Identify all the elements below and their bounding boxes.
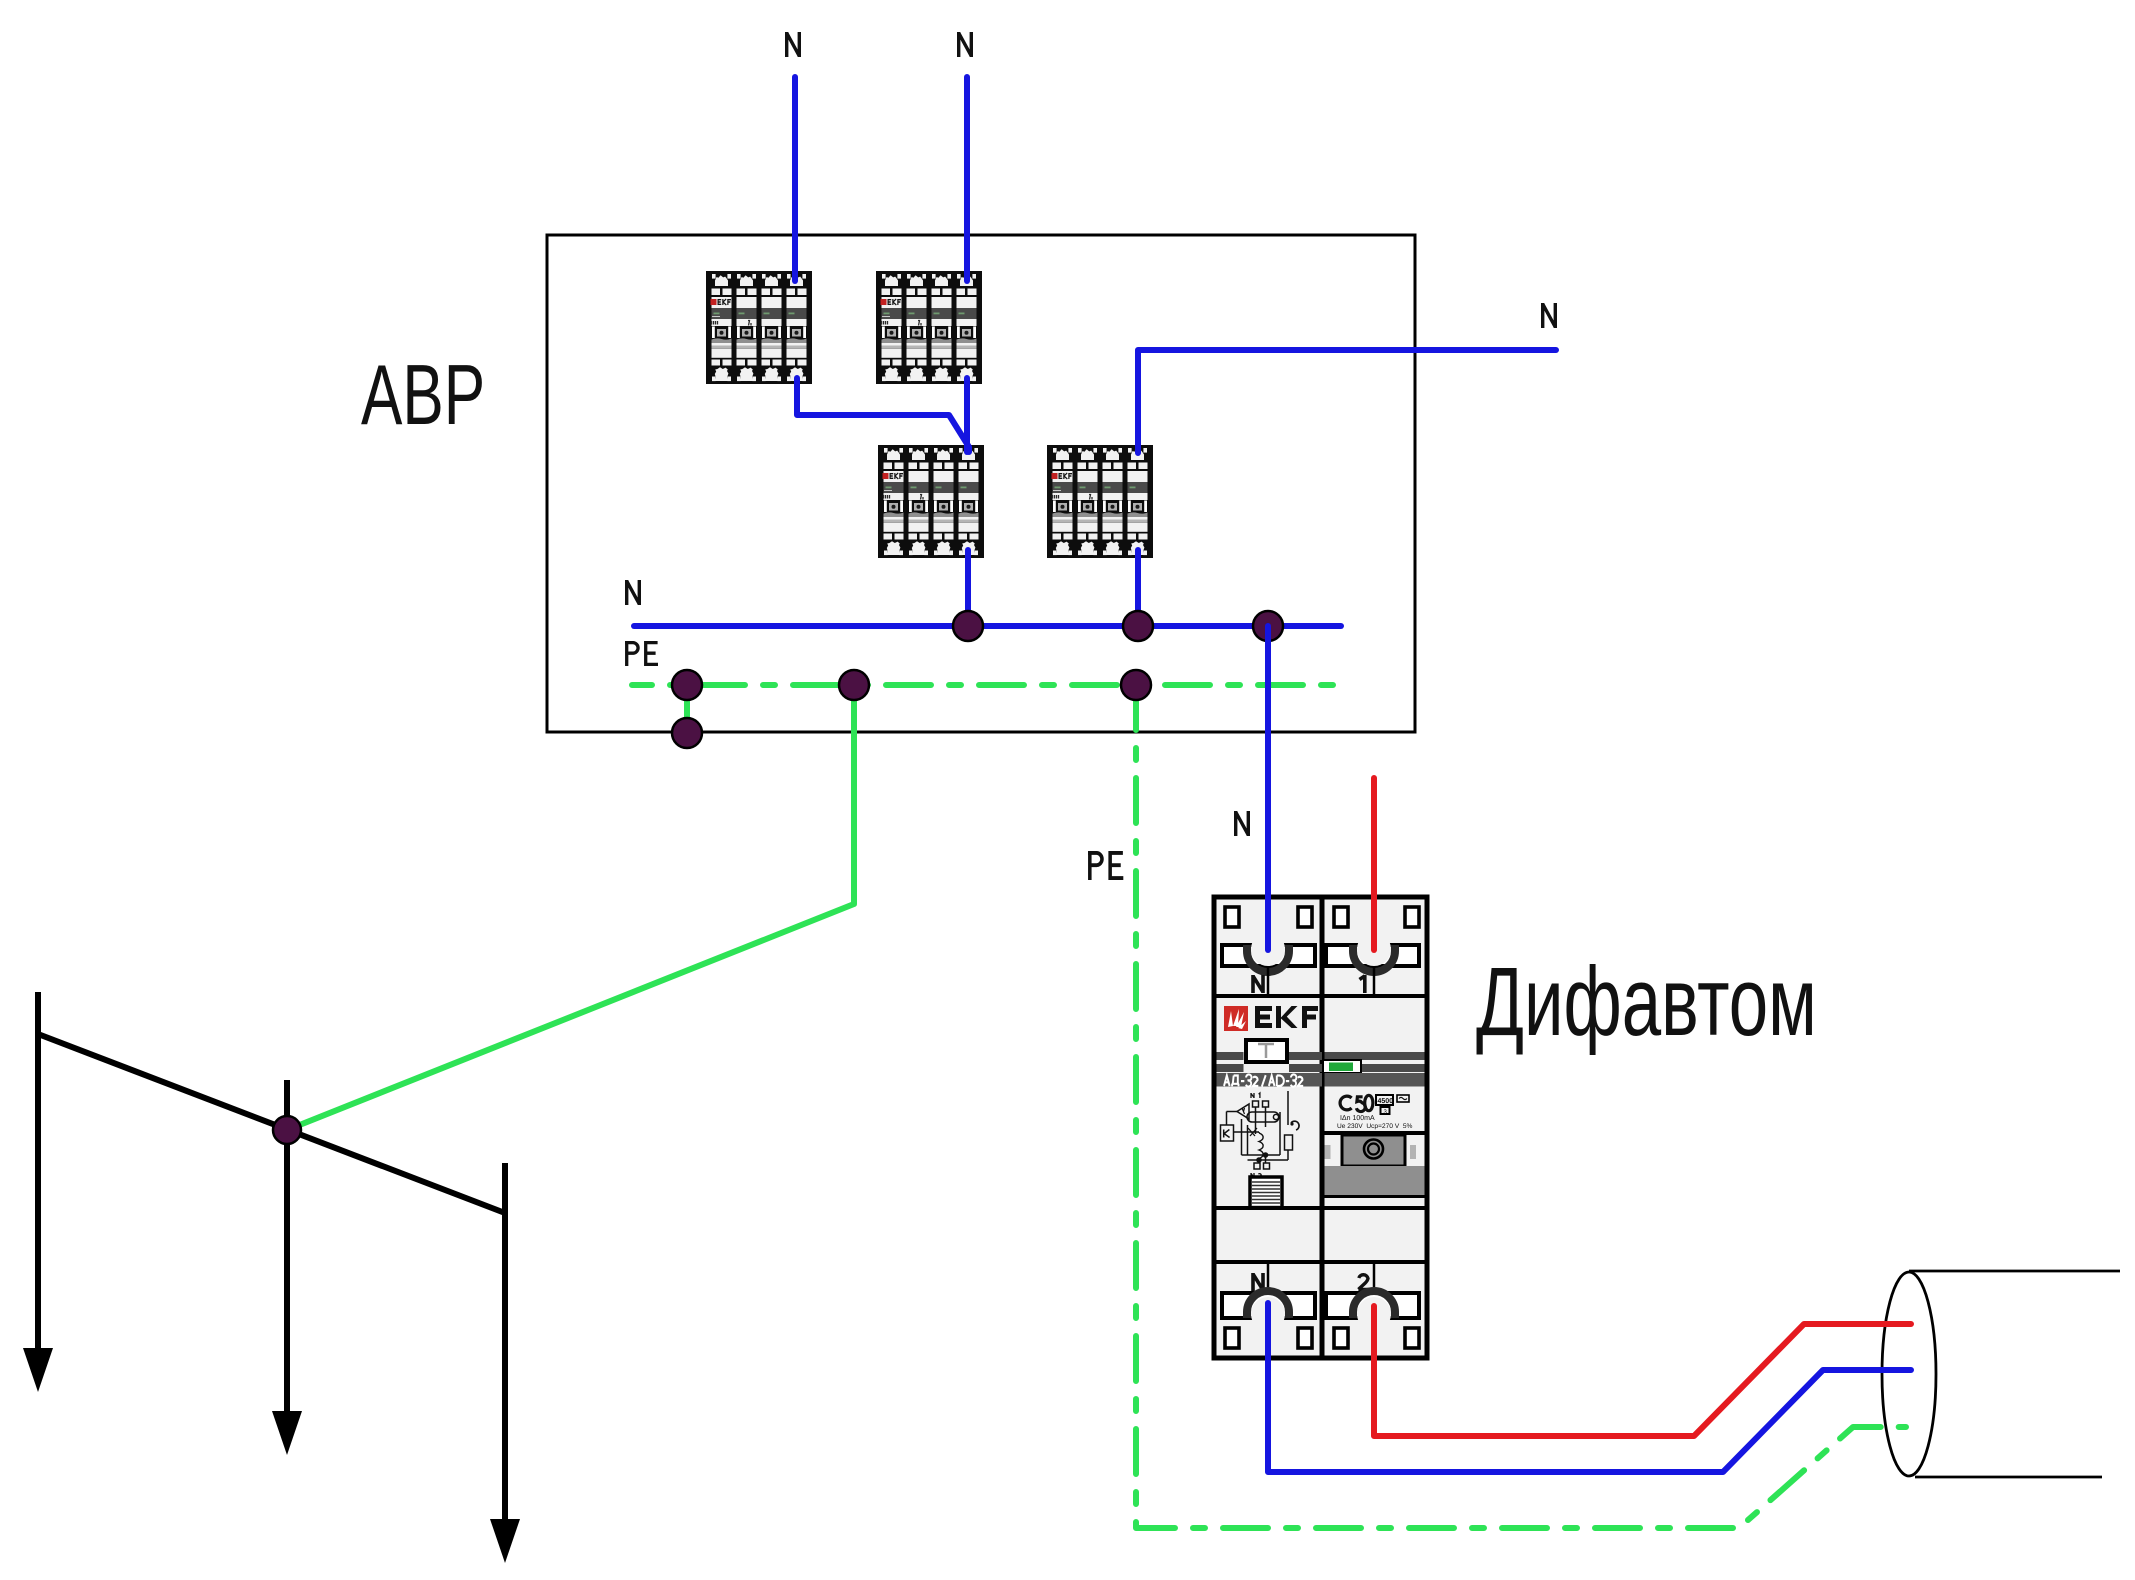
PE bus (dashed) [632,682,1341,688]
wire N feed 2 [964,77,970,281]
RCBO bottom terminal N [1222,1262,1315,1331]
circuit breaker QF4 [1047,445,1153,558]
RCBO rating C50 [1340,1095,1373,1111]
RCBO bottom terminal 2 [1326,1262,1419,1331]
svg-text:АВР: АВР [361,347,485,442]
label N bus [627,580,640,605]
label PE bus [625,641,658,666]
RCBO EKF logo [1224,1006,1318,1031]
RCBO circuit diagram [1221,1091,1300,1178]
node dot PE stub [672,718,702,748]
wire N feed 1 [792,77,798,281]
node dot N bus 1 [953,611,983,641]
node dot PE 3 [1121,670,1151,700]
label N output [1543,303,1556,328]
RCBO indicator window [1323,1060,1361,1073]
wire QF1 to QF3 [797,378,969,452]
RCBO device AD-32 [1214,897,1427,1358]
node dot PE 1 [672,670,702,700]
wire RCBO 2 to cable (red) [1374,1306,1911,1436]
ground rod 1 [35,992,41,1352]
ground bonding conductor [38,1034,505,1213]
node dot N bus 2 [1123,611,1153,641]
ground electrode [23,992,520,1563]
node dot PE 2 [839,670,869,700]
node dot N bus 3 [1253,611,1283,641]
label N feed 1 [787,32,800,57]
wire QF4 to N bus [1135,550,1141,626]
node dot ground junction [273,1116,301,1144]
RCBO face bands [1217,1052,1244,1060]
wire PE down to cable (dashed) [1136,685,1906,1528]
circuit breaker QF3 [878,445,984,558]
RCBO top terminal screws [1225,907,1419,927]
N bus [634,623,1341,629]
wire N bus to RCBO [1265,626,1271,950]
wire PE to ground electrode [287,685,854,1130]
RCBO bottom terminal screws [1225,1328,1419,1348]
RCBO label strip АД-32 [1217,1073,1323,1087]
label N at RCBO [1236,811,1249,836]
label PE 2 [1088,851,1123,880]
circuit breaker QF2 [876,271,982,384]
enclosure ABP box [547,235,1415,732]
svg-text:Дифавтом: Дифавтом [1476,947,1817,1056]
RCBO top terminal N [1222,932,1315,996]
RCBO test button [1246,1040,1287,1062]
label N feed 2 [959,32,972,57]
ground rod 3 [502,1163,508,1523]
wire QF3 to N bus [965,550,971,626]
RCBO body [1214,897,1427,1358]
cable sheath [1882,1271,2120,1477]
RCBO arc chute hatch [1250,1177,1282,1208]
wire L feed to RCBO (red) [1371,778,1377,950]
wire QF2 to QF3 [964,378,970,452]
circuit breaker QF1 [706,271,812,384]
ground rod 2 [284,1080,290,1415]
wire RCBO N to cable (blue) [1268,1303,1911,1472]
wire QF4 to N output [1138,350,1556,453]
RCBO top terminal 1 [1326,932,1419,996]
wire PE stub [684,685,690,733]
RCBO toggle handle [1325,1133,1425,1197]
